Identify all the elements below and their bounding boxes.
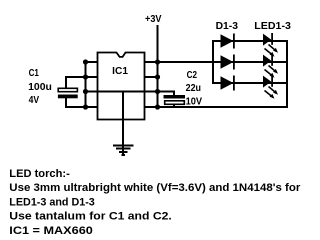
svg-text:10V: 10V	[186, 96, 203, 107]
svg-text:+3V: +3V	[145, 14, 162, 25]
svg-text:100u: 100u	[28, 82, 52, 93]
svg-text:LED torch:-: LED torch:-	[9, 168, 70, 180]
svg-text:IC1 = MAX660: IC1 = MAX660	[9, 225, 93, 235]
svg-text:4V: 4V	[29, 95, 40, 106]
svg-text:C1: C1	[29, 68, 40, 79]
svg-text:Use 3mm ultrabright white (Vf=: Use 3mm ultrabright white (Vf=3.6V) and …	[9, 182, 301, 194]
svg-text:Use tantalum for C1 and C2.: Use tantalum for C1 and C2.	[9, 211, 172, 223]
svg-text:IC1: IC1	[112, 66, 128, 77]
svg-text:LED1-3: LED1-3	[254, 21, 291, 32]
svg-text:C2: C2	[187, 70, 198, 81]
svg-text:22u: 22u	[186, 83, 201, 94]
svg-text:D1-3: D1-3	[216, 21, 239, 32]
svg-text:LED1-3 and D1-3: LED1-3 and D1-3	[9, 196, 95, 208]
